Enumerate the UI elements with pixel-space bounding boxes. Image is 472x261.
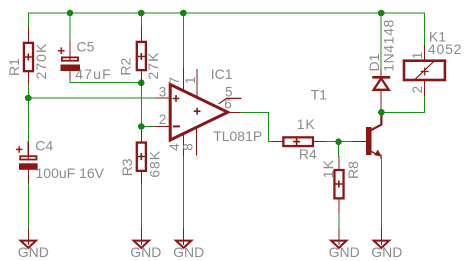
wire node down to C4 [27,98,29,142]
relay coil K1 [404,29,462,94]
svg-text:1K: 1K [297,116,316,132]
resistor R2 [118,42,162,80]
ground under T1 emitter [371,241,402,260]
wire pin IC1 pin7 [183,68,185,91]
junction dot node B R2 bottom [138,80,145,87]
svg-text:1: 1 [410,52,425,60]
emitter leg [370,151,381,159]
wire collector node to relay K1 [381,96,424,112]
wire R3 bottom to ground [140,184,142,229]
wire base node down to R8 [338,142,340,157]
svg-text:R4: R4 [299,146,317,162]
wire pin C5 bottom lead [69,71,71,79]
svg-text:GND: GND [173,244,204,260]
svg-text:TL081P: TL081P [213,128,262,144]
minus mark at pin2 [173,125,180,127]
junction dot node A R1 bottom [25,95,32,102]
wire pin R8 top lead [338,157,340,169]
wire pin K1 pin2 lead [423,81,425,96]
svg-text:GND: GND [18,244,49,260]
wire C5 top drop [69,13,71,42]
svg-text:7: 7 [167,77,182,85]
wire pin R8 bottom lead [338,200,340,213]
svg-text:68K: 68K [146,150,162,178]
resistor R4 [283,116,317,162]
wire pin C5 top lead [69,42,71,62]
wire T1 emitter to ground [380,159,382,230]
junction dot at pin7 top [180,10,187,17]
wire pin GND lead under R3 [140,229,142,245]
wire pin IC1 pin4 [183,133,185,155]
wire pin R1 top lead [27,28,29,42]
junction dot at C5 top [67,10,74,17]
svg-text:2: 2 [159,112,167,127]
svg-text:8: 8 [181,143,196,151]
wire pin GND lead under T1 emitter [380,229,382,245]
wire pin IC1 pin6 output stub [227,111,240,113]
ground under R8 [329,241,360,260]
junction dot node D base [335,138,342,145]
svg-text:2: 2 [410,86,425,94]
wire R4 to T1 base [325,141,353,143]
wire R1 bottom to node [27,84,29,98]
wire pin K1 pin1 lead [423,46,425,60]
wire R2 node down to pin2 node [140,83,142,127]
wire pin GND lead under C4 [27,229,29,245]
svg-text:1N4148: 1N4148 [380,19,396,72]
svg-text:T1: T1 [311,87,328,103]
ground under R3 [130,241,161,260]
wire pin R1 bottom lead [27,73,29,85]
svg-text:IC1: IC1 [211,66,233,82]
wire pin R4 right lead [314,141,325,143]
wire pin R3 top lead [140,127,142,142]
wire R2 top drop [140,13,142,27]
junction dot at R2 top [138,10,145,17]
wire pin IC1 pin2 stub [155,126,170,128]
wire top rail with left and right drops [28,13,424,46]
svg-text:47uF: 47uF [75,66,112,82]
svg-text:270K: 270K [33,43,49,80]
wire pin D1 cathode lead [380,69,382,76]
ground under IC1 pin4 [173,241,204,260]
svg-text:R1: R1 [6,58,22,76]
svg-text:C4: C4 [35,137,53,153]
wire pin C4 bottom lead [27,170,29,184]
op-amp U1 triangle [159,66,262,151]
wire C5 bottom over to R2 node [70,79,141,83]
svg-text:27K: 27K [145,52,161,80]
wire IC1 output to R4 [240,112,272,141]
junction dot node C pin2 [138,123,145,130]
svg-text:GND: GND [371,244,402,260]
wire R8 bottom to ground [338,213,340,229]
wire pin IC1 pin8 stub [196,128,198,155]
ground under C4 [18,241,49,260]
wire pin GND lead under R8 [338,229,340,245]
wire pin GND lead under IC1 pin4 [183,229,185,245]
svg-text:1: 1 [183,76,198,84]
wire pin R2 top lead [140,27,142,41]
capacitor C4 [16,137,105,181]
wire pin R2 bottom lead [140,72,142,83]
svg-text:R8: R8 [345,161,361,179]
svg-text:GND: GND [130,244,161,260]
svg-text:4052: 4052 [428,41,462,57]
wire pin IC1 pin5 stub [219,98,241,103]
svg-text:R3: R3 [119,158,135,176]
resistor R3 [119,143,163,178]
svg-text:C5: C5 [77,39,95,55]
plus mark center [194,108,201,115]
junction dot node E collector [378,109,385,116]
resistor R1 [6,43,49,80]
diode D1 [366,19,396,90]
wire pin D1 anode lead [380,90,382,112]
wire pin T1 base lead [352,141,366,143]
wire pin R2 lead tip over junction [140,80,142,86]
collector leg [369,112,382,131]
wire pin C4 top lead [27,142,29,160]
wire C4 bottom to ground [27,184,29,229]
wire IC1 pin7 drop [183,13,185,68]
svg-text:6: 6 [224,96,232,111]
wire pin2 node to IC1 pin2 [141,126,155,128]
emitter arrow [374,150,381,157]
svg-text:1K: 1K [320,159,336,178]
transistor Q1 T1 [311,87,382,159]
capacitor C5 [58,39,112,82]
junction dot at D1 top [378,10,385,17]
resistor R8 [320,159,361,198]
svg-text:GND: GND [329,244,360,260]
wire IC1 pin4 to ground [183,155,185,228]
svg-text:3: 3 [159,85,167,100]
wire node to IC1 pin3 [28,97,155,99]
wire pin R3 bottom lead [140,171,142,185]
svg-text:R2: R2 [118,57,134,75]
plus mark at pin3 [173,95,180,102]
svg-text:100uF 16V: 100uF 16V [36,165,105,181]
wire pin R4 left lead [272,141,282,143]
wire D1 top drop [380,13,382,69]
wire pin IC1 pin1 stub [196,70,198,98]
wire pin IC1 pin3 stub [155,97,170,99]
